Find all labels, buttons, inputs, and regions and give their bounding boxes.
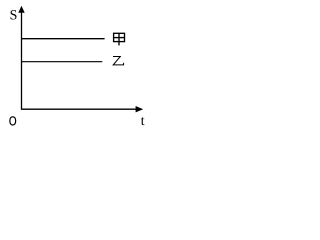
label t bbox=[141, 117, 145, 125]
character 乙 (label of lower line) bbox=[113, 57, 124, 65]
line 乙 (lower horizontal graph line) bbox=[22, 61, 103, 63]
label O (origin) bbox=[10, 117, 16, 125]
character 甲 (label of upper line) bbox=[114, 33, 125, 45]
axis S (vertical) bbox=[21, 10, 23, 110]
axis t (horizontal) bbox=[21, 108, 137, 110]
arrowhead top of S axis bbox=[18, 6, 24, 13]
arrowhead right of t axis bbox=[136, 106, 144, 112]
line 甲 (upper horizontal graph line) bbox=[22, 38, 105, 40]
label S bbox=[11, 10, 17, 19]
